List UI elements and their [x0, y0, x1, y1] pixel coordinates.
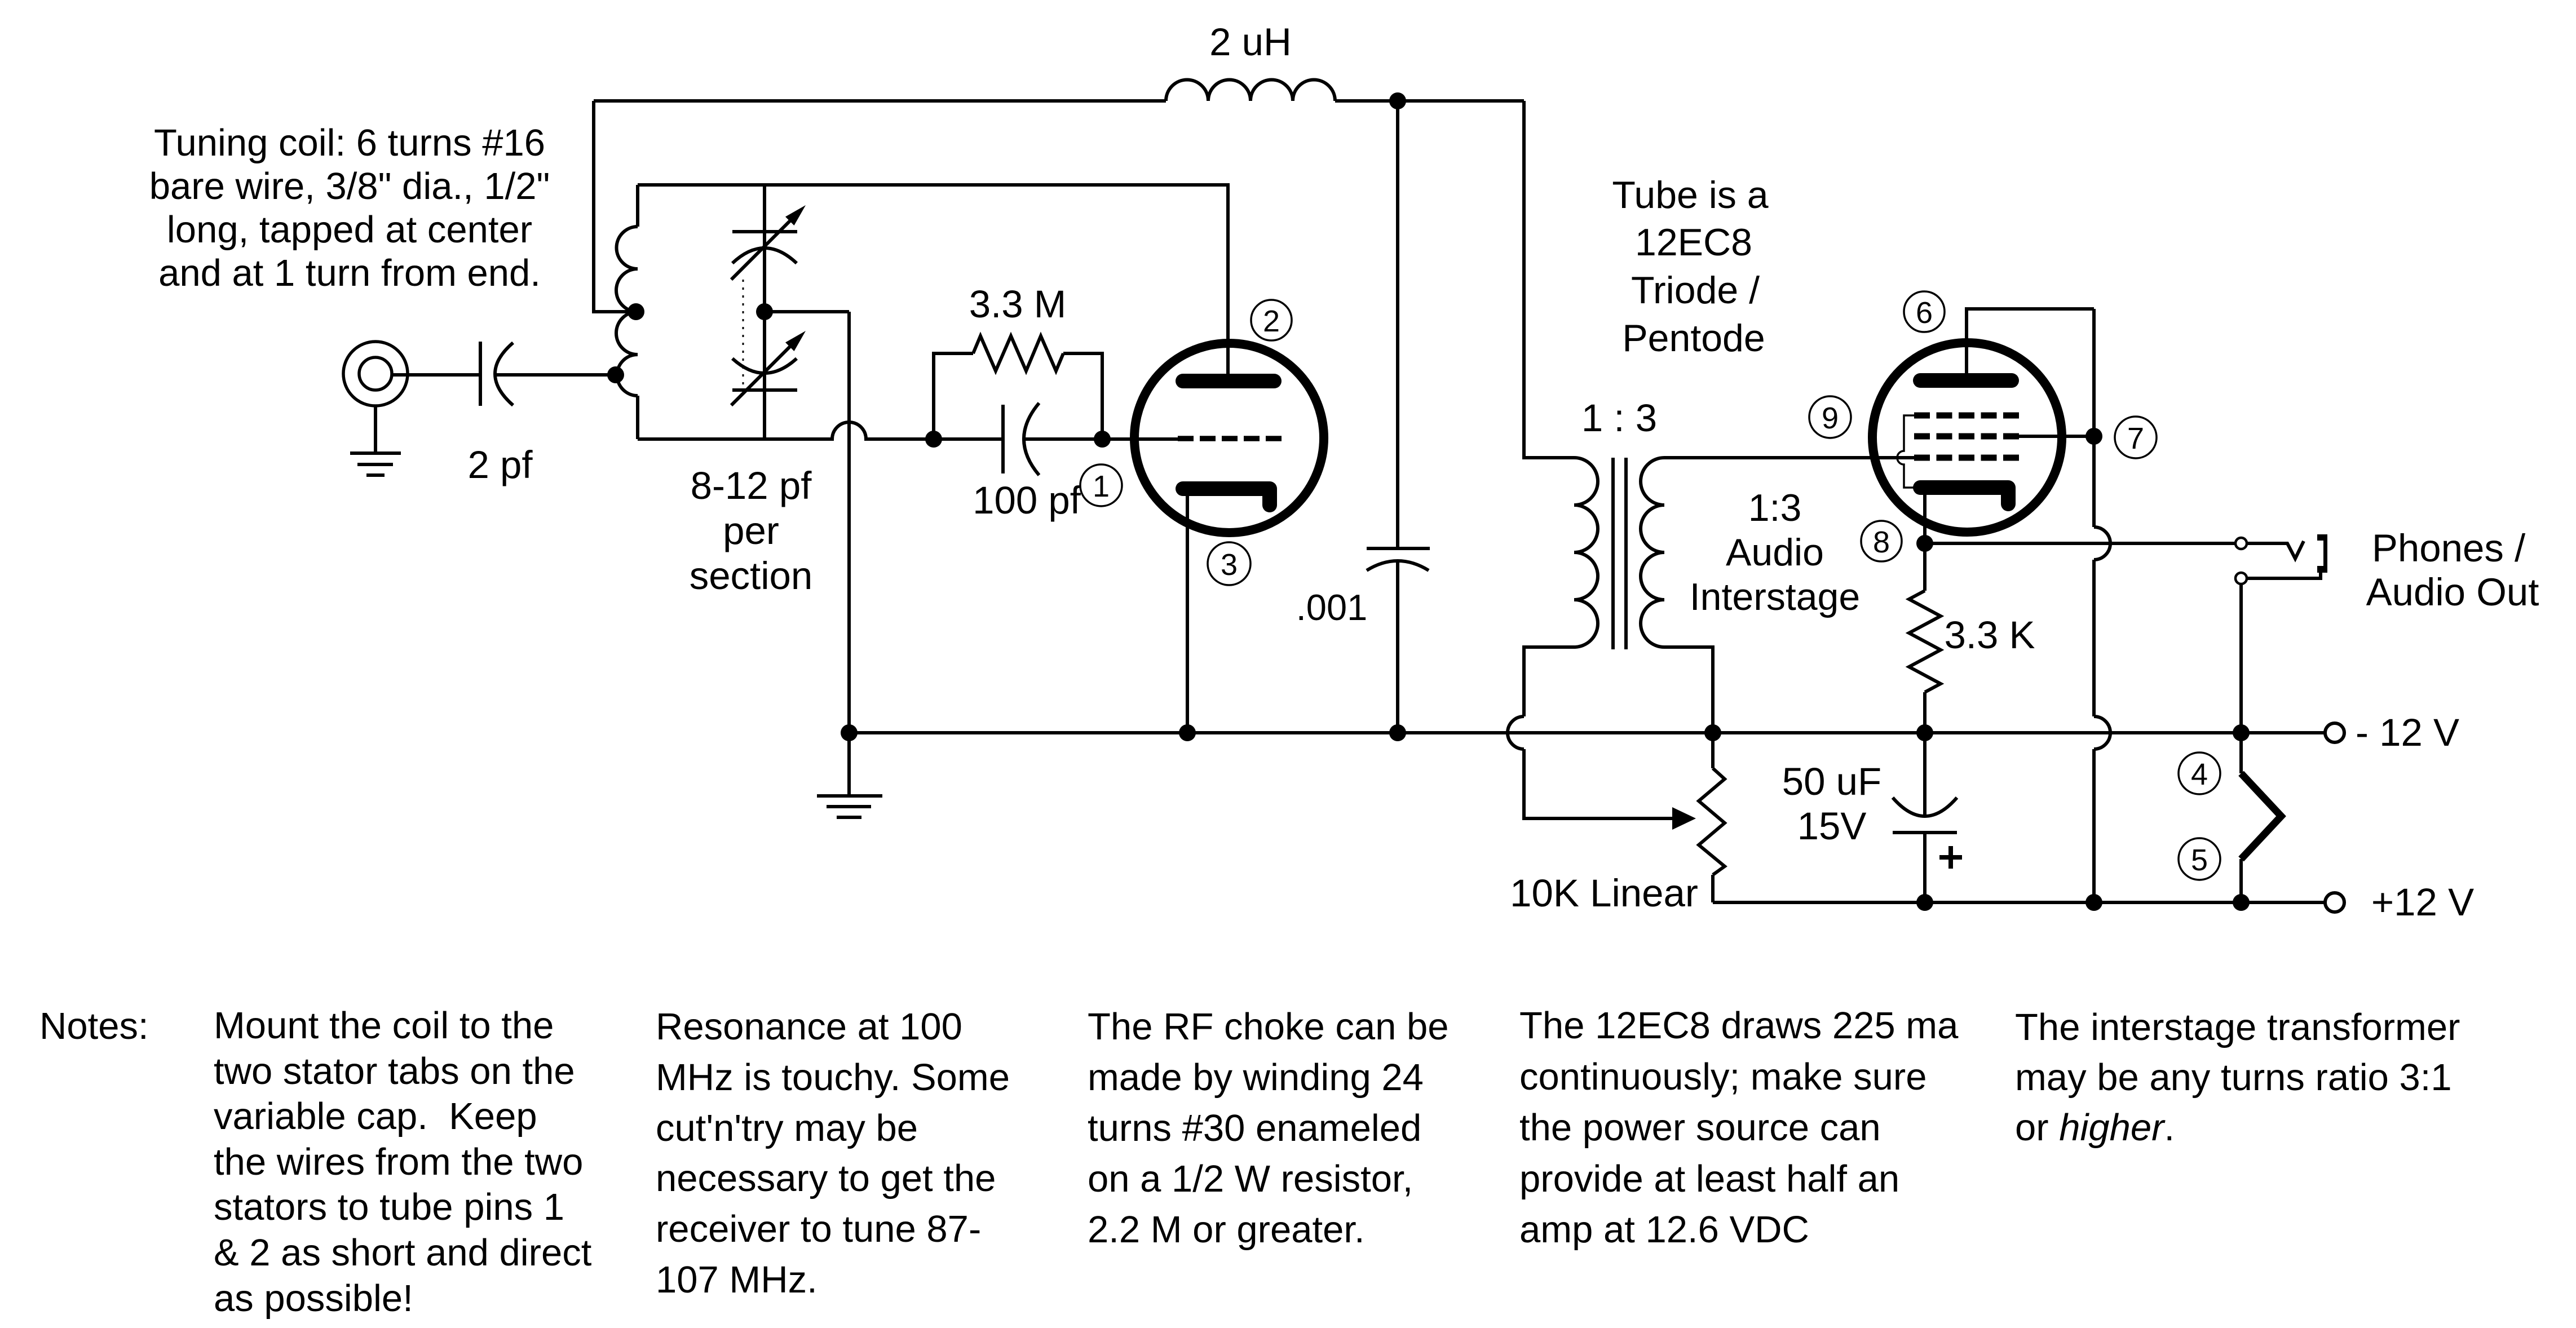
- svg-text:as possible!: as possible!: [214, 1277, 413, 1320]
- svg-text:provide at least half an: provide at least half an: [1519, 1158, 1899, 1200]
- svg-text:Audio Out: Audio Out: [2366, 570, 2539, 614]
- svg-text:the power source can: the power source can: [1519, 1106, 1881, 1149]
- svg-text:Triode /: Triode /: [1631, 269, 1760, 312]
- svg-text:1 : 3: 1 : 3: [1581, 396, 1657, 440]
- svg-text:8: 8: [1873, 525, 1890, 559]
- svg-text:Tube is a: Tube is a: [1612, 174, 1768, 216]
- svg-text:7: 7: [2127, 422, 2144, 455]
- svg-text:The 12EC8 draws 225 ma: The 12EC8 draws 225 ma: [1519, 1004, 1959, 1047]
- svg-text:Pentode: Pentode: [1622, 317, 1765, 360]
- svg-text:+12 V: +12 V: [2371, 880, 2474, 924]
- svg-text:section: section: [690, 554, 813, 597]
- svg-text:10K Linear: 10K Linear: [1510, 871, 1698, 915]
- svg-text:3: 3: [1221, 548, 1238, 582]
- svg-text:or higher.: or higher.: [2015, 1106, 2175, 1149]
- svg-text:two stator tabs on the: two stator tabs on the: [214, 1050, 575, 1092]
- svg-text:100 pf: 100 pf: [973, 479, 1081, 522]
- svg-text:5: 5: [2191, 843, 2208, 877]
- svg-text:4: 4: [2191, 758, 2208, 791]
- svg-text:variable cap. Keep: variable cap. Keep: [214, 1095, 537, 1137]
- svg-text:the wires from the two: the wires from the two: [214, 1141, 583, 1183]
- svg-text:1: 1: [1093, 470, 1110, 503]
- svg-text:2: 2: [1263, 304, 1280, 338]
- svg-text:2.2 M or greater.: 2.2 M or greater.: [1088, 1209, 1365, 1251]
- svg-text:Phones /: Phones /: [2372, 526, 2526, 570]
- svg-text:long, tapped at center: long, tapped at center: [167, 209, 532, 251]
- svg-text:cut'n'try may be: cut'n'try may be: [656, 1107, 918, 1149]
- svg-text:Interstage: Interstage: [1690, 576, 1860, 618]
- svg-text:- 12 V: - 12 V: [2356, 711, 2459, 754]
- svg-text:12EC8: 12EC8: [1635, 221, 1752, 264]
- svg-text:per: per: [723, 509, 779, 552]
- svg-text:turns #30 enameled: turns #30 enameled: [1088, 1107, 1421, 1149]
- svg-text:Tuning coil: 6 turns #16: Tuning coil: 6 turns #16: [154, 122, 545, 164]
- svg-text:Mount the coil to the: Mount the coil to the: [214, 1004, 554, 1047]
- svg-text:MHz is touchy. Some: MHz is touchy. Some: [656, 1056, 1010, 1099]
- svg-text:Notes:: Notes:: [39, 1005, 149, 1047]
- svg-text:1:3: 1:3: [1748, 486, 1802, 529]
- svg-text:& 2 as short and direct: & 2 as short and direct: [214, 1232, 592, 1274]
- svg-text:receiver to tune 87-: receiver to tune 87-: [656, 1208, 981, 1250]
- svg-text:.001: .001: [1296, 587, 1368, 628]
- svg-text:bare wire, 3/8" dia., 1/2": bare wire, 3/8" dia., 1/2": [149, 165, 550, 207]
- svg-text:Resonance at 100: Resonance at 100: [656, 1006, 962, 1048]
- svg-text:continuously; make sure: continuously; make sure: [1519, 1056, 1927, 1098]
- svg-text:9: 9: [1822, 401, 1839, 435]
- svg-text:3.3 K: 3.3 K: [1944, 613, 2035, 657]
- svg-text:may be any turns ratio 3:1: may be any turns ratio 3:1: [2015, 1056, 2452, 1099]
- svg-text:on a 1/2 W resistor,: on a 1/2 W resistor,: [1088, 1158, 1413, 1200]
- svg-text:stators to tube pins 1: stators to tube pins 1: [214, 1186, 564, 1228]
- svg-text:The RF choke can be: The RF choke can be: [1088, 1006, 1449, 1048]
- svg-text:The interstage transformer: The interstage transformer: [2015, 1006, 2460, 1048]
- svg-text:Audio: Audio: [1726, 531, 1824, 574]
- svg-text:made by winding 24: made by winding 24: [1088, 1056, 1424, 1099]
- svg-text:2 uH: 2 uH: [1209, 20, 1292, 64]
- svg-text:6: 6: [1916, 296, 1933, 330]
- svg-text:3.3 M: 3.3 M: [969, 282, 1067, 326]
- svg-text:2 pf: 2 pf: [467, 443, 533, 486]
- svg-text:50 uF: 50 uF: [1782, 760, 1881, 803]
- svg-text:107 MHz.: 107 MHz.: [656, 1259, 818, 1301]
- svg-text:15V: 15V: [1797, 804, 1867, 848]
- svg-text:necessary to get the: necessary to get the: [656, 1157, 996, 1199]
- svg-text:and at 1 turn from end.: and at 1 turn from end.: [158, 252, 541, 294]
- svg-text:8-12 pf: 8-12 pf: [691, 464, 812, 507]
- svg-text:amp at 12.6 VDC: amp at 12.6 VDC: [1519, 1209, 1809, 1251]
